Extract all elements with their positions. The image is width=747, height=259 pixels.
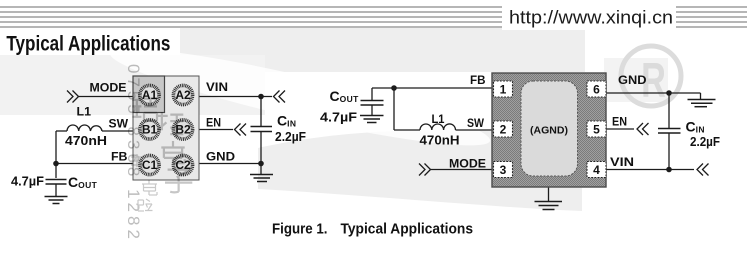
svg-text:470nH: 470nH [420,134,460,148]
svg-text:http://www.xinqi.cn: http://www.xinqi.cn [509,7,673,27]
svg-text:MODE: MODE [90,81,127,95]
svg-text:2.2µF: 2.2µF [275,130,306,144]
svg-text:4: 4 [593,163,600,177]
svg-text:Typical Applications: Typical Applications [6,32,170,55]
svg-text:Figure 1.: Figure 1. [272,222,328,238]
svg-text:EN: EN [612,115,627,129]
svg-text:GND: GND [206,150,235,164]
svg-text:2.2µF: 2.2µF [690,135,720,149]
svg-text:CIN: CIN [686,119,705,135]
svg-text:FB: FB [470,73,486,87]
svg-text:A2: A2 [175,88,191,102]
svg-text:3: 3 [500,163,507,177]
svg-text:6: 6 [593,83,600,97]
svg-text:2: 2 [500,123,507,137]
svg-text:VIN: VIN [610,155,634,169]
svg-text:VIN: VIN [206,80,228,94]
svg-text:(AGND): (AGND) [530,125,568,137]
svg-text:EN: EN [206,116,221,130]
svg-text:COUT: COUT [68,174,98,190]
svg-text:B1: B1 [142,123,158,137]
svg-text:4.7µF: 4.7µF [320,110,357,125]
svg-text:4.7µF: 4.7µF [11,174,44,189]
svg-text:1: 1 [500,83,507,97]
svg-text:MODE: MODE [449,157,486,171]
svg-text:SW: SW [467,116,485,130]
svg-text:GND: GND [618,73,647,87]
svg-text:5: 5 [593,123,600,137]
svg-text:0755 8368 1282: 0755 8368 1282 [124,64,143,243]
svg-text:C1: C1 [142,158,158,172]
svg-text:470nH: 470nH [65,134,107,148]
svg-text:Typical Applications: Typical Applications [341,222,474,238]
svg-text:L1: L1 [77,105,92,119]
svg-text:L1: L1 [432,112,445,126]
